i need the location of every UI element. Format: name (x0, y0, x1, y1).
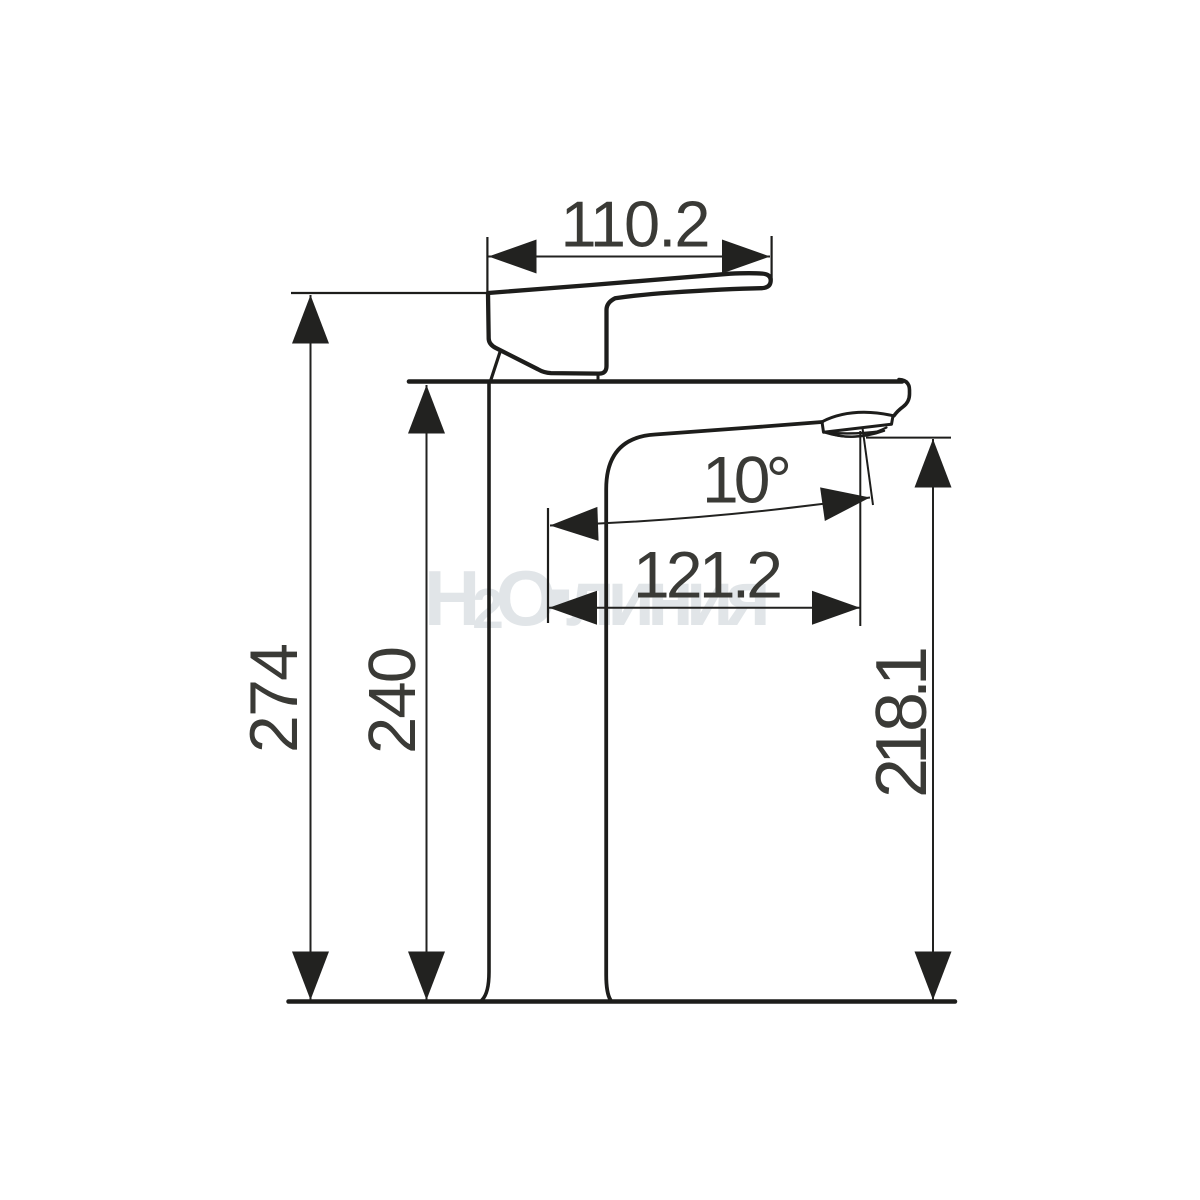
svg-text:218.1: 218.1 (862, 646, 942, 798)
svg-text:110.2: 110.2 (561, 188, 711, 261)
svg-text:121.2: 121.2 (633, 538, 783, 612)
svg-text:240: 240 (355, 646, 430, 754)
svg-text:10°: 10° (702, 443, 792, 517)
svg-text:274: 274 (236, 643, 312, 753)
